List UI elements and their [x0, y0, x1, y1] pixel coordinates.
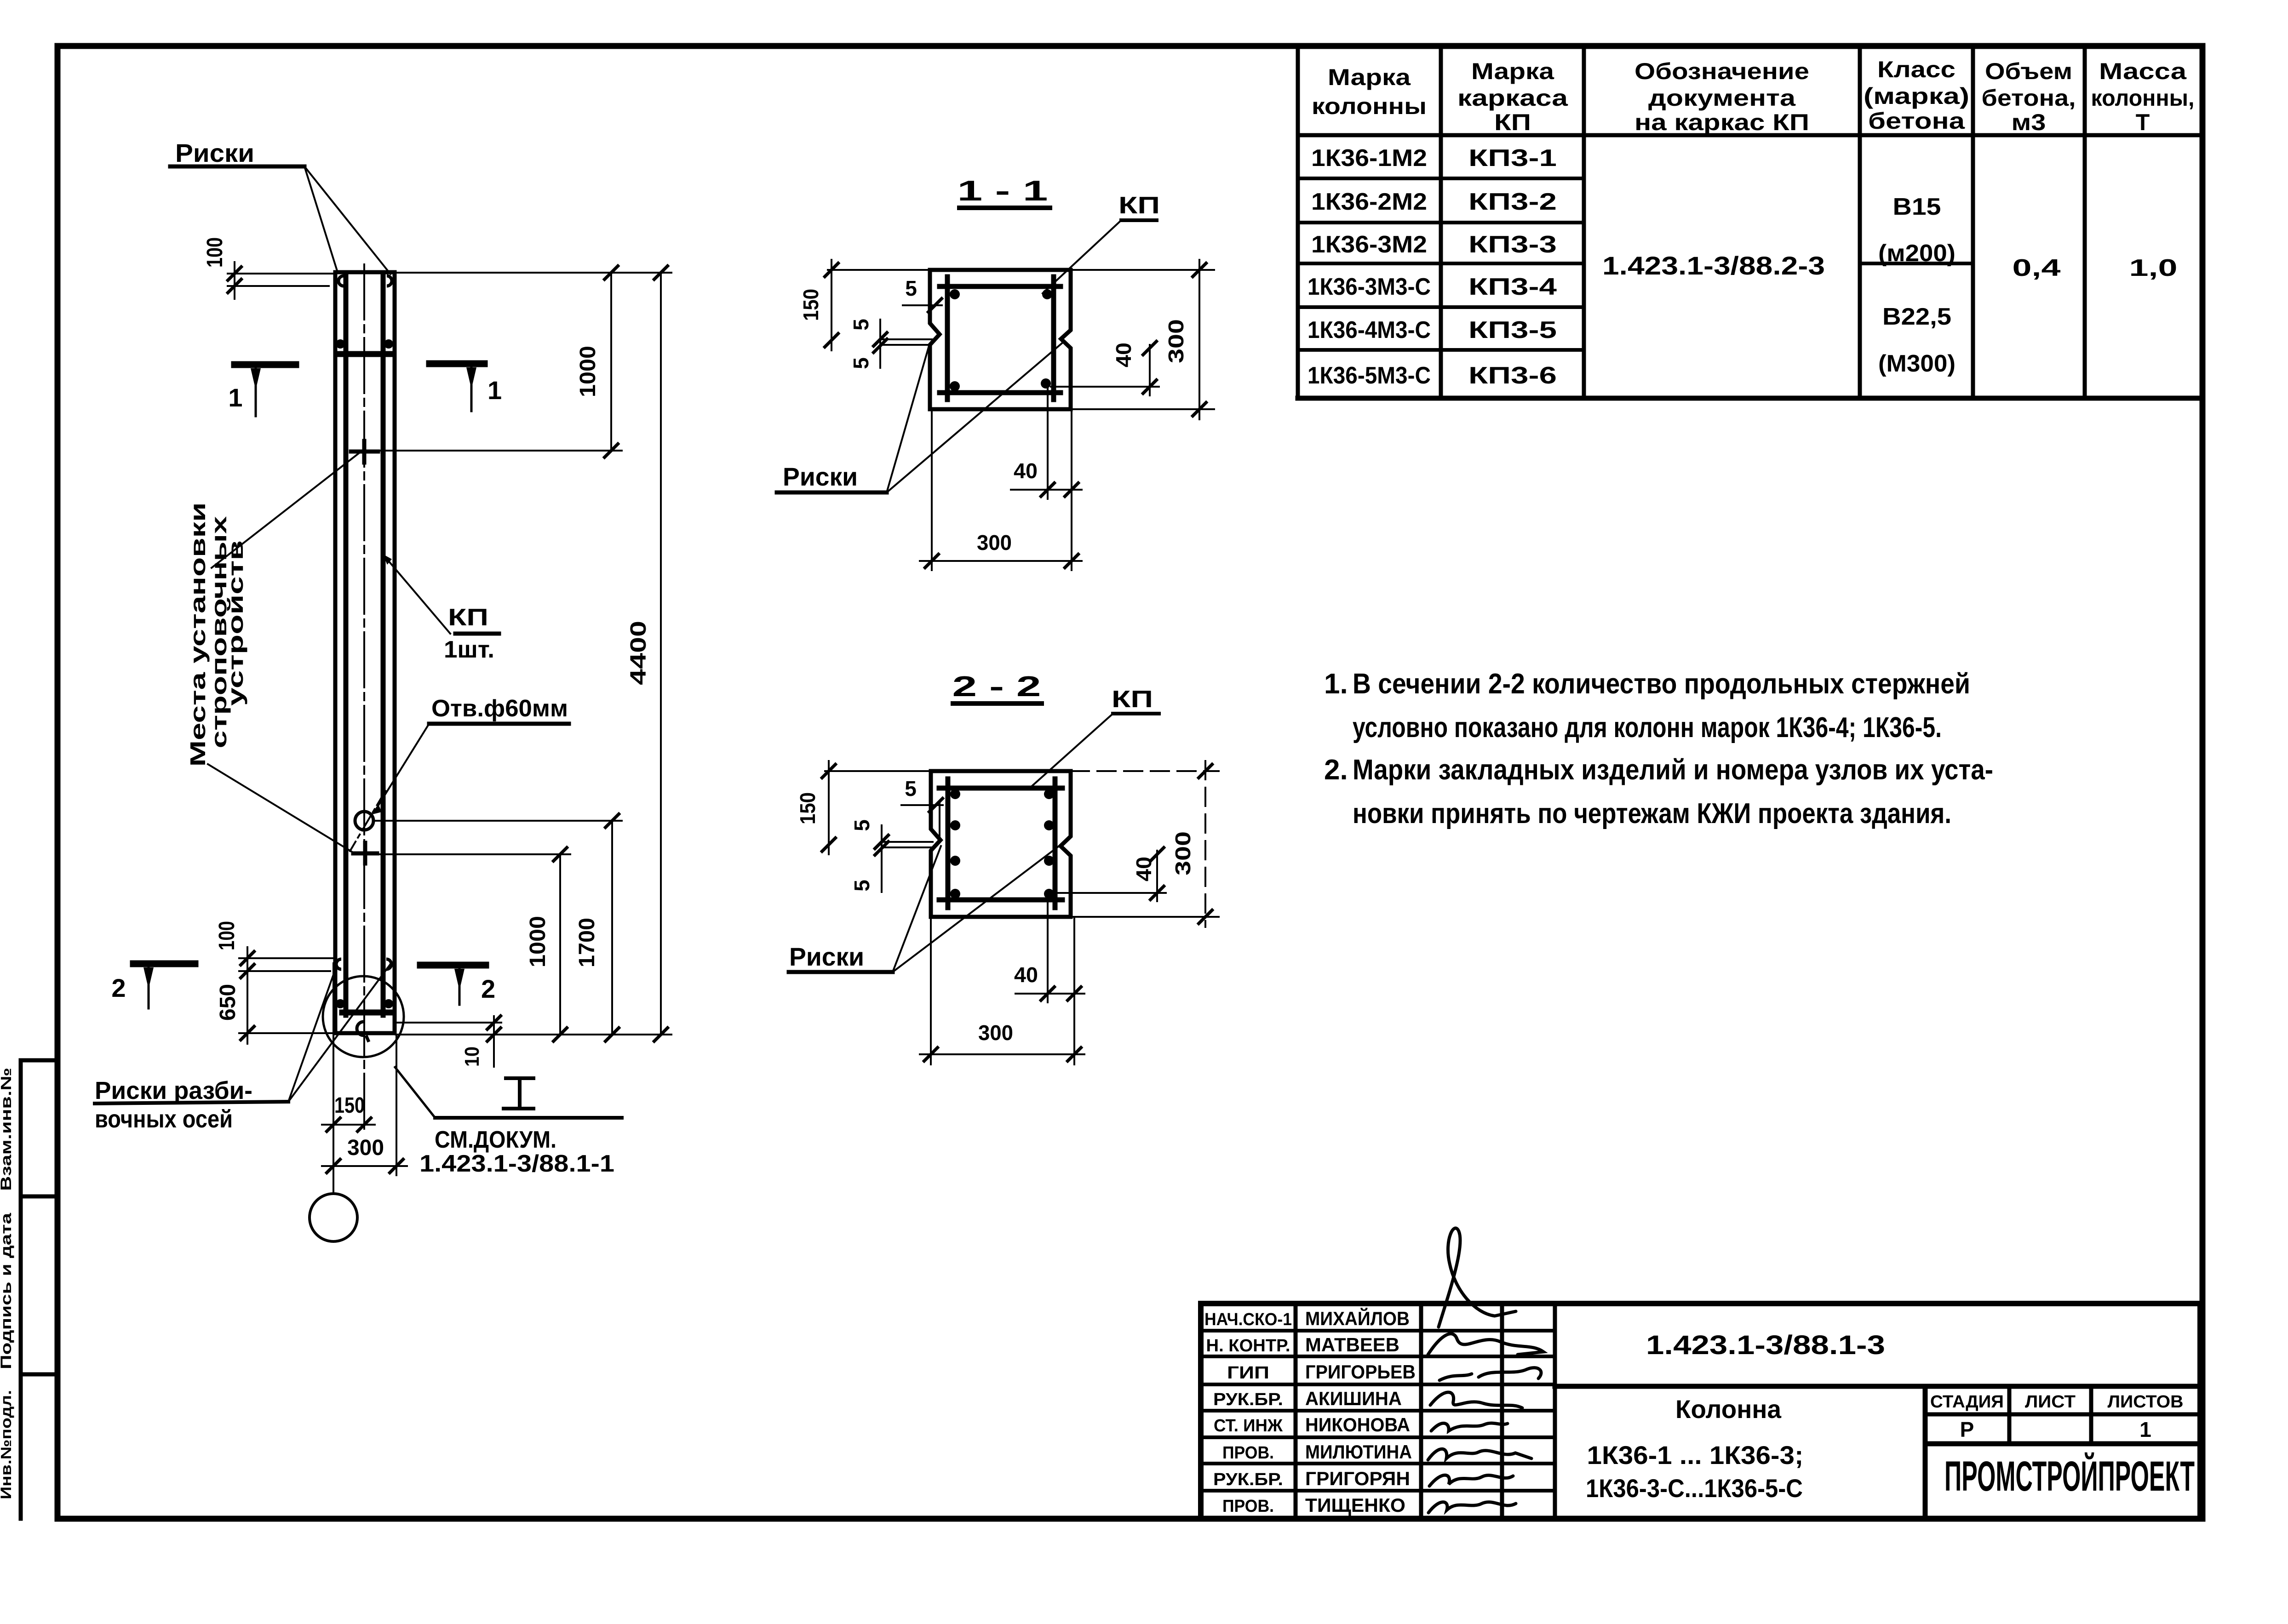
svg-text:В22,5: В22,5	[1882, 303, 1951, 330]
title block name Колонна	[1675, 1395, 1782, 1424]
svg-text:ТИЩЕНКО: ТИЩЕНКО	[1305, 1494, 1405, 1516]
section 2-2 leader Риски to right notch	[893, 841, 1065, 972]
leader to upper lifting point	[212, 452, 361, 568]
svg-text:1000: 1000	[526, 916, 550, 967]
svg-text:каркаса: каркаса	[1457, 85, 1568, 111]
section 2-2 dimensions 5/5 left	[850, 819, 933, 892]
svg-text:100: 100	[203, 237, 227, 268]
svg-text:300: 300	[977, 531, 1012, 555]
section 2-2 label КП	[1112, 686, 1159, 714]
note 2 line 1	[1324, 754, 1993, 786]
rebar right bar	[381, 277, 386, 1015]
hole diagonal centerline	[350, 791, 385, 851]
svg-text:40: 40	[1112, 343, 1135, 367]
svg-text:Объем: Объем	[1985, 58, 2072, 84]
svg-text:на каркас КП: на каркас КП	[1634, 109, 1809, 135]
svg-text:вочных осей: вочных осей	[95, 1105, 233, 1133]
svg-text:КП3-4: КП3-4	[1468, 274, 1557, 300]
svg-text:бетона,: бетона,	[1982, 85, 2076, 111]
section marker 2 (left)	[111, 964, 195, 1008]
leader to lower lifting point	[208, 764, 352, 852]
svg-text:СМ.ДОКУМ.: СМ.ДОКУМ.	[435, 1127, 556, 1153]
title block СТАДИЯ	[1930, 1392, 2004, 1412]
note 1 line 2	[1353, 712, 1942, 743]
table row 2 column mark 1К36-2М2	[1311, 189, 1427, 215]
section 1-1 leader КП	[1043, 220, 1121, 293]
svg-text:0,4: 0,4	[2013, 255, 2061, 281]
section 2-2 dimension 300 right	[1071, 761, 1219, 927]
svg-text:Подпись и дата: Подпись и дата	[0, 1213, 14, 1369]
svg-text:1К36-5М3-С: 1К36-5М3-С	[1307, 362, 1431, 389]
svg-text:1К36-1 ... 1К36-3;: 1К36-1 ... 1К36-3;	[1587, 1441, 1804, 1470]
svg-text:КП: КП	[1494, 109, 1531, 135]
section 2-2 concrete outline	[931, 771, 1071, 917]
signature row 7	[1429, 1475, 1513, 1486]
svg-text:1шт.: 1шт.	[444, 636, 494, 663]
svg-text:НАЧ.СКО-1: НАЧ.СКО-1	[1204, 1310, 1292, 1329]
dimension 300 bottom	[322, 1136, 407, 1174]
svg-text:10: 10	[461, 1046, 483, 1067]
svg-text:1.423.1-3/88.1-3: 1.423.1-3/88.1-3	[1646, 1330, 1885, 1360]
table row 6 frame mark КП3-6	[1468, 362, 1557, 389]
section 1-1 dimension 300 right	[1071, 260, 1214, 419]
title block ПРОМСТРОЙПРОЕКТ	[1944, 1452, 2195, 1500]
section 1-1 leader Риски to right notch	[887, 342, 1063, 492]
table concrete class B22,5 (М300)	[1878, 303, 1955, 377]
svg-text:40: 40	[1014, 459, 1038, 483]
leader to bottom left risk	[288, 966, 337, 1102]
svg-text:КП3-3: КП3-3	[1468, 231, 1557, 258]
section 1-1 label КП	[1118, 192, 1160, 220]
dimension 150 bottom	[322, 1093, 375, 1132]
section 1-1 dimension 300 bottom	[920, 409, 1082, 570]
signature row 6	[1428, 1449, 1531, 1460]
section marker 1 (left)	[228, 365, 296, 416]
svg-text:Н. КОНТР.: Н. КОНТР.	[1206, 1336, 1290, 1355]
dimension 100 top	[203, 237, 335, 299]
section 2-2 dimension 5 top	[901, 777, 944, 841]
title block sheets 1	[2139, 1418, 2151, 1441]
svg-text:300: 300	[1171, 831, 1195, 875]
svg-text:40: 40	[1014, 963, 1038, 987]
svg-text:2: 2	[481, 974, 495, 1003]
margin label Инв.№подл.	[0, 1390, 14, 1499]
svg-text:Риски: Риски	[175, 138, 254, 167]
svg-text:Обозначение: Обозначение	[1634, 58, 1809, 84]
svg-text:1.: 1.	[1324, 668, 1348, 700]
table concrete class B15 (м200)	[1878, 194, 1955, 267]
svg-text:ПРОВ.: ПРОВ.	[1222, 1443, 1274, 1463]
svg-text:ГИП: ГИП	[1227, 1363, 1269, 1383]
section 1-1 label Риски	[777, 462, 887, 492]
title block grid	[1201, 1304, 2200, 1519]
rebar left bar	[344, 277, 349, 1015]
svg-text:ЛИСТ: ЛИСТ	[2025, 1392, 2076, 1412]
svg-text:(марка): (марка)	[1864, 83, 1969, 109]
signature row 4	[1430, 1392, 1522, 1408]
svg-text:300: 300	[978, 1021, 1013, 1045]
table row 2 frame mark КП3-2	[1468, 189, 1557, 215]
table header Обозначение документа на каркас КП	[1634, 58, 1809, 135]
svg-text:300: 300	[1164, 319, 1188, 363]
title block row 3: ГИП ГРИГОРЬЕВ	[1227, 1361, 1416, 1383]
dimension 10	[395, 1015, 502, 1067]
note 1 line 1	[1324, 668, 1970, 700]
svg-text:Марки закладных изделий и номе: Марки закладных изделий и номера узлов и…	[1353, 754, 1993, 786]
svg-text:СТАДИЯ: СТАДИЯ	[1930, 1392, 2004, 1412]
signature row 3	[1439, 1368, 1541, 1380]
dimension 1700	[575, 813, 620, 1042]
section 2-2 dimension 300 bottom	[920, 917, 1084, 1064]
label Риски разбивочных осей	[95, 1077, 288, 1133]
svg-text:Р: Р	[1960, 1418, 1974, 1441]
table row 1 frame mark КП3-1	[1468, 145, 1557, 172]
table document designation 1.423.1-3/88.2-3	[1602, 251, 1825, 280]
table grid	[1298, 46, 2200, 398]
section 2-2 dimension 150	[796, 761, 931, 854]
svg-text:4400: 4400	[626, 621, 651, 685]
bottom inner hook mark	[357, 1022, 369, 1042]
svg-text:ЛИСТОВ: ЛИСТОВ	[2108, 1392, 2184, 1412]
table column mass 1,0	[2129, 255, 2178, 281]
svg-text:150: 150	[796, 792, 820, 824]
svg-text:300: 300	[347, 1136, 384, 1160]
title block row 1: НАЧ.СКО-1 МИХАЙЛОВ	[1204, 1307, 1410, 1329]
label Места установки строповочных устройств	[186, 503, 247, 767]
svg-text:КП: КП	[1118, 192, 1160, 219]
note 2 line 2	[1353, 798, 1951, 829]
section 1-1 dimensions 5/5 left	[849, 319, 932, 369]
grid bubble	[310, 1194, 357, 1241]
upper lifting insert bar	[336, 339, 393, 354]
label Риски (top)	[170, 138, 304, 167]
dimension 650	[216, 982, 335, 1044]
section 2-2 label Риски	[789, 942, 893, 972]
lower cross extension line	[378, 853, 570, 855]
lower lifting insert bar	[336, 999, 393, 1012]
table row 1 column mark 1К36-1М2	[1311, 145, 1427, 172]
svg-text:1: 1	[2139, 1418, 2151, 1441]
detail symbol I	[504, 1078, 533, 1109]
svg-text:Инв.№подл.: Инв.№подл.	[0, 1390, 14, 1499]
label КП 1шт.	[444, 604, 499, 663]
svg-text:Риски разби-: Риски разби-	[95, 1077, 252, 1104]
svg-text:1000: 1000	[576, 346, 600, 397]
title block row 6: ПРОВ. МИЛЮТИНА	[1222, 1441, 1412, 1463]
svg-text:КП: КП	[448, 604, 488, 631]
svg-text:100: 100	[215, 921, 239, 950]
svg-text:40: 40	[1132, 857, 1156, 881]
column centerline	[363, 264, 365, 1131]
svg-text:КП3-1: КП3-1	[1468, 145, 1557, 172]
leader КП to rebar	[383, 554, 450, 634]
title block name 1К36-1 ... 1К36-3;	[1587, 1441, 1804, 1470]
svg-text:документа: документа	[1648, 85, 1796, 111]
table header Класс (марка) бетона	[1864, 57, 1969, 134]
section 1-1 dimension 150	[799, 260, 930, 350]
title block ЛИСТ	[2025, 1392, 2076, 1412]
svg-text:5: 5	[905, 777, 917, 801]
section 1-1 stirrup	[940, 277, 1061, 400]
svg-text:колонны,: колонны,	[2091, 85, 2195, 111]
svg-text:МИХАЙЛОВ: МИХАЙЛОВ	[1305, 1307, 1410, 1329]
section 2-2 leader Риски to left notch	[893, 846, 941, 972]
detail circle	[323, 976, 404, 1057]
top risk mark left	[338, 276, 344, 286]
title block row 7: РУК.БР. ГРИГОРЯН	[1213, 1468, 1410, 1489]
section 1-1 dimension 5 top	[903, 276, 943, 313]
table header Марка каркаса КП	[1457, 58, 1568, 135]
bottom risk mark left	[336, 959, 341, 969]
section 1-1 dimension 40 bottom	[1011, 388, 1082, 570]
svg-text:Марка: Марка	[1328, 64, 1411, 90]
svg-text:150: 150	[799, 289, 823, 321]
svg-text:1К36-3-С...1К36-5-С: 1К36-3-С...1К36-5-С	[1586, 1474, 1803, 1503]
section marker 1 (right)	[430, 364, 502, 411]
svg-text:В15: В15	[1893, 194, 1941, 220]
svg-text:Масса: Масса	[2099, 58, 2187, 84]
svg-text:В сечении 2-2 количество продо: В сечении 2-2 количество продольных стер…	[1353, 668, 1970, 700]
svg-text:МАТВЕЕВ: МАТВЕЕВ	[1305, 1334, 1399, 1355]
svg-text:колонны: колонны	[1312, 93, 1427, 119]
hole Отв.60 circle	[355, 812, 373, 830]
dimension 1000 top	[378, 265, 622, 458]
leader Отв to hole	[371, 724, 429, 815]
section 2-2 bars	[950, 789, 1054, 899]
svg-text:СТ. ИНЖ: СТ. ИНЖ	[1214, 1416, 1283, 1435]
svg-text:МИЛЮТИНА: МИЛЮТИНА	[1305, 1441, 1412, 1463]
svg-text:1К36-3М2: 1К36-3М2	[1311, 231, 1427, 258]
svg-text:Места установки: Места установки	[186, 503, 210, 767]
section 2-2 leader КП	[1031, 714, 1113, 787]
section 2-2 title	[952, 671, 1042, 703]
margin label Взам.инв.№	[0, 1068, 14, 1191]
hole extension line	[373, 820, 622, 822]
svg-text:Класс: Класс	[1877, 57, 1955, 82]
svg-text:1: 1	[228, 383, 242, 412]
svg-text:650: 650	[216, 984, 240, 1021]
grid axis line	[333, 963, 334, 1194]
svg-text:ПРОМСТРОЙПРОЕКТ: ПРОМСТРОЙПРОЕКТ	[1944, 1452, 2195, 1500]
section 1-1 leader Риски to left notch	[887, 346, 929, 492]
section 2-2 dimension 40 bottom	[1014, 897, 1084, 1064]
svg-text:5: 5	[849, 319, 873, 331]
svg-text:1 - 1: 1 - 1	[958, 175, 1048, 207]
svg-text:2: 2	[111, 973, 126, 1002]
svg-text:1К36-2М2: 1К36-2М2	[1311, 189, 1427, 215]
top risk mark right	[387, 276, 392, 286]
svg-text:Колонна: Колонна	[1675, 1395, 1782, 1424]
top extension line	[395, 272, 671, 274]
dimension 1000 bottom	[526, 846, 568, 1042]
section 2-2 stirrup	[939, 779, 1062, 908]
right face extension	[396, 1035, 397, 1175]
svg-text:устройств: устройств	[224, 540, 247, 706]
svg-text:РУК.БР.: РУК.БР.	[1213, 1470, 1283, 1489]
svg-text:новки принять по чертежам КЖИ: новки принять по чертежам КЖИ проекта зд…	[1353, 798, 1951, 829]
upper lifting point cross	[351, 441, 378, 463]
title block row 5: СТ. ИНЖ НИКОНОВА	[1214, 1414, 1410, 1435]
svg-text:м3: м3	[2012, 109, 2046, 135]
table row 5 column mark 1К36-4М3-С	[1307, 317, 1431, 343]
svg-text:КП3-2: КП3-2	[1468, 189, 1557, 215]
table row 6 column mark 1К36-5М3-С	[1307, 362, 1431, 389]
svg-text:1700: 1700	[575, 918, 599, 967]
dimension 100 bottom	[215, 921, 335, 982]
title block row 2: Н. КОНТР. МАТВЕЕВ	[1206, 1334, 1400, 1355]
svg-text:150: 150	[334, 1093, 365, 1118]
svg-text:Риски: Риски	[789, 942, 864, 971]
svg-text:ПРОВ.: ПРОВ.	[1222, 1497, 1274, 1516]
svg-text:ГРИГОРЯН: ГРИГОРЯН	[1305, 1468, 1410, 1489]
svg-text:РУК.БР.: РУК.БР.	[1213, 1390, 1283, 1409]
svg-text:5: 5	[850, 819, 874, 831]
svg-text:КП3-6: КП3-6	[1468, 362, 1557, 389]
margin label Подпись и дата	[0, 1213, 14, 1369]
svg-text:1К36-4М3-С: 1К36-4М3-С	[1307, 317, 1431, 343]
table header Марка колонны	[1312, 64, 1427, 119]
svg-text:Риски: Риски	[783, 462, 858, 491]
margin attribute boxes	[21, 1060, 57, 1519]
svg-text:2.: 2.	[1324, 754, 1348, 786]
section marker 2 (right)	[420, 965, 495, 1005]
svg-text:5: 5	[849, 357, 873, 369]
svg-text:НИКОНОВА: НИКОНОВА	[1305, 1414, 1410, 1435]
lower lifting point cross	[353, 843, 377, 863]
title block stage Р	[1960, 1418, 1974, 1441]
table row 4 column mark 1К36-3М3-С	[1307, 274, 1431, 300]
svg-text:Взам.инв.№: Взам.инв.№	[0, 1068, 14, 1191]
svg-text:Т: Т	[2136, 109, 2150, 135]
svg-text:1,0: 1,0	[2129, 255, 2178, 281]
column elevation outline	[335, 272, 395, 1033]
table row 5 frame mark КП3-5	[1468, 317, 1557, 343]
title block row 4: РУК.БР. АКИШИНА	[1213, 1388, 1402, 1409]
label Отв.ф60мм	[429, 695, 569, 724]
svg-text:5: 5	[905, 276, 917, 300]
section 1-1 title	[958, 175, 1050, 208]
section 1-1 dimension 40 right	[1051, 340, 1159, 395]
svg-text:1.423.1-3/88.1-1: 1.423.1-3/88.1-1	[419, 1150, 614, 1177]
bottom extension line right	[396, 1034, 671, 1035]
svg-text:АКИШИНА: АКИШИНА	[1305, 1388, 1402, 1409]
table concrete volume 0,4	[2013, 255, 2061, 281]
svg-text:Марка: Марка	[1471, 58, 1554, 84]
table row 4 frame mark КП3-4	[1468, 274, 1557, 300]
svg-text:бетона: бетона	[1868, 108, 1965, 134]
signature row 8	[1428, 1502, 1516, 1513]
table row 3 frame mark КП3-3	[1468, 231, 1557, 258]
label См.докум.	[395, 1067, 622, 1177]
signature row 2	[1428, 1334, 1543, 1355]
title block row 8: ПРОВ. ТИЩЕНКО	[1222, 1494, 1405, 1516]
svg-text:1К36-1М2: 1К36-1М2	[1311, 145, 1427, 172]
leader Риски to top right corner	[304, 166, 390, 274]
table header Масса колонны, Т	[2091, 58, 2195, 135]
signature row 1	[1439, 1228, 1516, 1327]
svg-text:КП: КП	[1112, 686, 1153, 713]
svg-text:условно показано для колонн ма: условно показано для колонн марок 1К36-4…	[1353, 712, 1942, 743]
svg-text:1: 1	[487, 376, 502, 405]
bottom risk mark right	[386, 959, 391, 969]
section 2-2 dimension 40 right	[1053, 846, 1166, 901]
table row 3 column mark 1К36-3М2	[1311, 231, 1427, 258]
svg-text:КП3-5: КП3-5	[1468, 317, 1557, 343]
svg-text:1К36-3М3-С: 1К36-3М3-С	[1307, 274, 1431, 300]
title block ЛИСТОВ	[2108, 1392, 2184, 1412]
svg-text:1.423.1-3/88.2-3: 1.423.1-3/88.2-3	[1602, 251, 1825, 280]
title block document number 1.423.1-3/88.1-3	[1646, 1330, 1885, 1360]
svg-text:(М300): (М300)	[1878, 350, 1955, 377]
dimension 4400	[626, 265, 669, 1042]
section 1-1 corner bars	[950, 289, 1052, 391]
svg-text:ГРИГОРЬЕВ: ГРИГОРЬЕВ	[1305, 1361, 1416, 1383]
leader to bottom right risk	[288, 965, 390, 1102]
svg-text:(м200): (м200)	[1878, 240, 1955, 267]
leader Риски to top left corner	[304, 166, 338, 272]
svg-text:2 - 2: 2 - 2	[952, 671, 1041, 703]
table header Объем бетона, м3	[1982, 58, 2076, 135]
svg-text:Отв.ф60мм: Отв.ф60мм	[431, 695, 568, 722]
svg-text:5: 5	[850, 880, 874, 892]
signature row 5	[1431, 1423, 1508, 1431]
section 1-1 concrete outline	[930, 270, 1071, 409]
title block name 1К36-3-С...1К36-5-С	[1586, 1474, 1803, 1503]
